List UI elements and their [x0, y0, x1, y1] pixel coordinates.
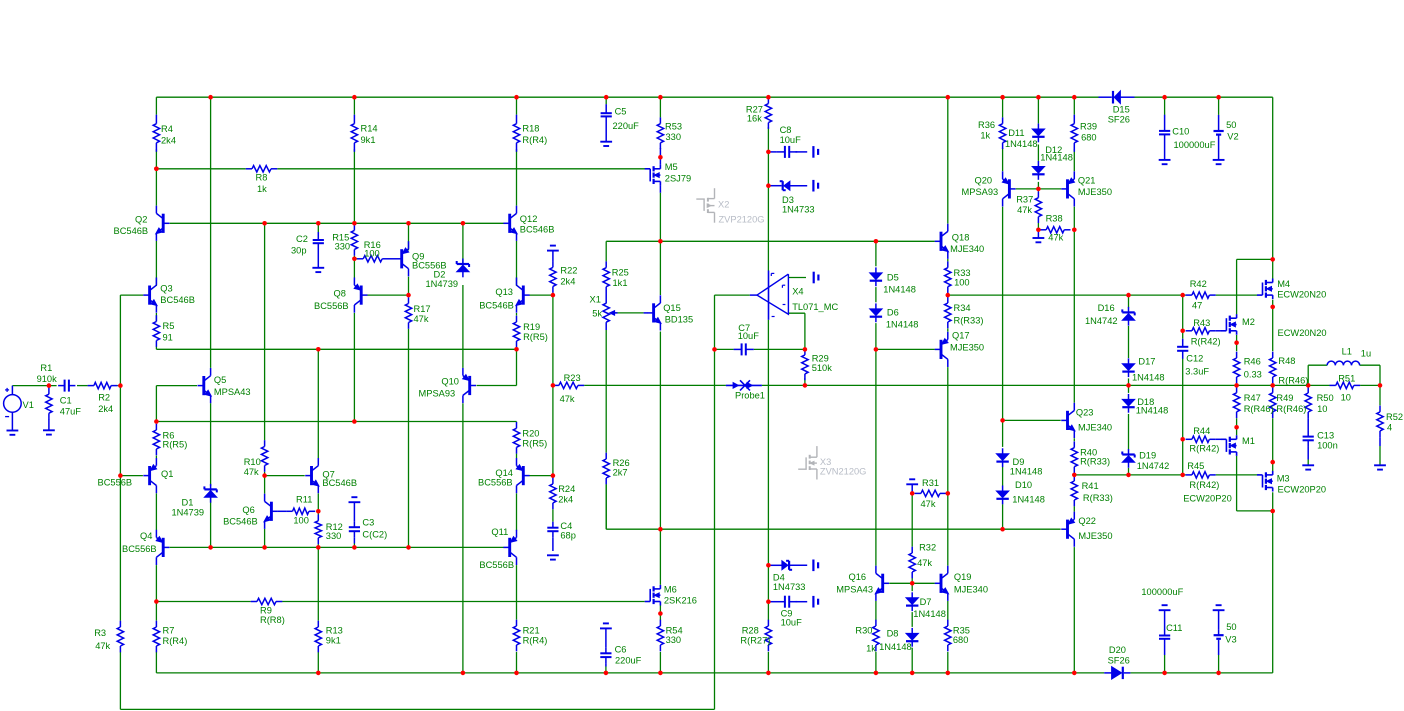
svg-text:R53: R53: [665, 122, 682, 132]
svg-text:1N4148: 1N4148: [913, 609, 946, 619]
junction R45-left: [1180, 473, 1185, 478]
diode D15 SF26: [1113, 91, 1120, 104]
transistor Q19 MJE340: [935, 566, 949, 601]
label R4: [161, 124, 176, 146]
svg-text:100n: 100n: [1317, 441, 1338, 451]
label D20: [1108, 645, 1130, 666]
label C5: [613, 107, 640, 132]
junction Q2base-I: [406, 221, 411, 226]
svg-text:Q3: Q3: [160, 284, 172, 294]
ground for V2: [1213, 160, 1225, 164]
label R33: [954, 268, 971, 287]
junction rail547-F: [262, 545, 267, 550]
label C10: [1172, 126, 1215, 150]
svg-text:47k: 47k: [1017, 205, 1032, 215]
junction R43-left: [1180, 329, 1185, 334]
diode D9 1N4148: [996, 448, 1008, 467]
ground for R38: [1033, 238, 1045, 242]
junction top-H: [352, 95, 357, 100]
capacitor C13 100n: [1303, 431, 1314, 447]
resistor R35 680: [945, 620, 951, 652]
label R3: [94, 628, 110, 651]
junction D16-top: [1126, 293, 1131, 298]
svg-text:MJE340: MJE340: [954, 585, 988, 595]
label Q19: [954, 572, 988, 595]
svg-text:330: 330: [666, 132, 682, 142]
wire D15 leads: [1099, 96, 1112, 98]
svg-text:Q10: Q10: [441, 377, 459, 387]
label R16: [364, 240, 381, 259]
label Q8: [314, 289, 349, 312]
resistor R13 9k1: [315, 621, 321, 653]
wire col Q9-R17: [408, 223, 410, 250]
junction R47-M1: [1234, 425, 1239, 430]
junction C7-left: [712, 347, 717, 352]
svg-text:R(R4): R(R4): [523, 636, 548, 646]
svg-text:R(R4): R(R4): [163, 636, 188, 646]
svg-text:D19: D19: [1139, 451, 1156, 461]
svg-text:R44: R44: [1193, 426, 1210, 436]
junction rail421-H: [352, 419, 357, 424]
junction R32-D7: [910, 581, 915, 586]
svg-text:1N4148: 1N4148: [879, 642, 912, 652]
svg-text:1N4733: 1N4733: [773, 582, 806, 592]
svg-text:R25: R25: [612, 267, 629, 277]
transistor Q7 BC546B: [305, 458, 319, 493]
ground for C5: [600, 142, 612, 146]
svg-text:100: 100: [954, 277, 970, 287]
svg-text:X1: X1: [590, 295, 601, 305]
svg-text:MJE340: MJE340: [950, 244, 984, 254]
resistor R21 R(R4): [513, 620, 519, 652]
label R27: [746, 104, 763, 123]
mosfet M3 ECW20P20: [1257, 471, 1273, 492]
ground (flipped) C11 top tie: [1159, 605, 1171, 610]
svg-text:47uF: 47uF: [60, 407, 82, 417]
diode D4 1N4733 (zener): [782, 561, 792, 570]
svg-text:R32: R32: [919, 543, 936, 553]
junction rail349-G: [316, 347, 321, 352]
svg-text:47: 47: [1192, 301, 1202, 311]
svg-text:C5: C5: [615, 107, 627, 117]
wire col R39-Q21-Q23-R40-R41-Q22: [1073, 97, 1075, 115]
label D10: [1012, 480, 1045, 504]
label D11: [1005, 128, 1038, 149]
label C4: [560, 521, 576, 541]
svg-text:R42: R42: [1190, 279, 1207, 289]
label M2: [1242, 317, 1255, 327]
junction R44-left: [1180, 437, 1185, 442]
junction rail241-R: [874, 239, 879, 244]
potentiometer X1 5k: [603, 303, 618, 322]
svg-text:SF26: SF26: [1108, 115, 1130, 125]
junction bot-C6: [604, 671, 609, 676]
svg-text:1u: 1u: [1361, 349, 1371, 359]
transistor Q12 BC546B: [503, 206, 517, 241]
svg-text:2k4: 2k4: [161, 136, 176, 146]
resistor R45 R(R42): [1186, 472, 1216, 478]
svg-text:ECW20N20: ECW20N20: [1277, 289, 1326, 299]
junction R11-R12: [316, 509, 321, 514]
junction bot-C11: [1162, 671, 1167, 676]
svg-text:R5: R5: [163, 321, 175, 331]
label R8: [256, 173, 268, 195]
junction R46-R47: [1234, 383, 1239, 388]
junction R22-Q13: [551, 293, 556, 298]
junction Q2base-J: [461, 221, 466, 226]
svg-text:Q14: Q14: [495, 468, 513, 478]
junction top-K: [514, 95, 519, 100]
label R15: [332, 232, 350, 251]
svg-text:ZVN2120G: ZVN2120G: [820, 467, 867, 477]
junction out-R52: [1378, 383, 1383, 388]
svg-text:Q4: Q4: [140, 531, 152, 541]
svg-text:R(R5): R(R5): [523, 332, 548, 342]
label R6: [163, 431, 188, 450]
svg-text:100: 100: [364, 249, 380, 259]
svg-text:BC546B: BC546B: [322, 478, 357, 488]
svg-text:SF26: SF26: [1108, 656, 1130, 666]
label R35: [953, 625, 970, 645]
svg-text:BC556B: BC556B: [479, 560, 514, 570]
wire col M4-R48-R49-M3: [1272, 259, 1274, 278]
svg-text:1k: 1k: [980, 130, 990, 140]
svg-text:30p: 30p: [291, 246, 307, 256]
transistor Q17 MJE350: [935, 332, 948, 367]
junction bot-W: [1072, 671, 1077, 676]
wire rail Q2-Q12 base: [170, 222, 504, 224]
junction D9-top: [1000, 418, 1005, 423]
svg-text:R43: R43: [1193, 318, 1210, 328]
label R18: [522, 124, 547, 146]
wire right bus bottom: [1272, 511, 1274, 673]
svg-text:47k: 47k: [95, 641, 110, 651]
svg-text:68p: 68p: [560, 531, 576, 541]
mosfet M4 ECW20N20: [1257, 279, 1273, 300]
svg-text:1N4148: 1N4148: [1132, 373, 1165, 383]
junction R40-R41: [1072, 473, 1077, 478]
label Q21: [1078, 175, 1112, 197]
svg-text:510k: 510k: [812, 363, 833, 373]
svg-text:R(R5): R(R5): [522, 439, 547, 449]
wire C8-batt: [796, 151, 808, 153]
svg-text:R2: R2: [98, 393, 110, 403]
label R53: [665, 122, 682, 143]
label R12: [326, 522, 343, 541]
svg-text:MPSA93: MPSA93: [962, 187, 999, 197]
wire col R52: [1379, 385, 1381, 405]
transistor Q20 MPSA93: [1002, 171, 1015, 206]
label Q14: [478, 468, 513, 488]
svg-text:1N4148: 1N4148: [886, 319, 919, 329]
transistor Q5 MPSA43: [198, 368, 212, 403]
source V1: [4, 388, 22, 417]
svg-text:2k4: 2k4: [98, 404, 113, 414]
label D19: [1137, 451, 1170, 471]
svg-text:2k4: 2k4: [560, 276, 575, 286]
svg-text:R41: R41: [1082, 481, 1099, 491]
svg-text:M5: M5: [665, 162, 678, 172]
resistor R48 R(R46): [1270, 352, 1276, 384]
label X1: [590, 295, 603, 319]
wire col R18-Q12-Q13: [516, 97, 518, 115]
label Q3: [160, 284, 195, 306]
resistor R32 47k: [909, 547, 915, 579]
junction top-N: [658, 95, 663, 100]
wire L1 loop: [1308, 364, 1327, 366]
ground for C10: [1159, 160, 1171, 164]
label V3: [1225, 622, 1236, 644]
svg-text:D8: D8: [887, 629, 899, 639]
transistor Q15 BD135: [647, 295, 661, 330]
resistor R53 330: [657, 117, 663, 149]
label R50: [1317, 393, 1334, 414]
wire rail R9-M6 gate: [156, 601, 250, 603]
svg-text:100000uF: 100000uF: [1141, 587, 1183, 597]
label M5: [665, 162, 691, 184]
junction rail-R8: [154, 167, 159, 172]
label D18: [1136, 397, 1169, 415]
svg-text:47k: 47k: [921, 499, 936, 509]
ground (flipped) V3 top tie: [1213, 605, 1225, 610]
junction top-V: [1036, 95, 1041, 100]
wire V1-R1: [12, 385, 56, 387]
svg-text:2SK216: 2SK216: [664, 596, 697, 606]
transistor Q4 BC556B: [156, 530, 169, 565]
label C1: [60, 396, 82, 417]
label D16: [1085, 303, 1118, 326]
label D4: [773, 573, 806, 592]
junction bot-N: [658, 671, 663, 676]
svg-text:MJE350: MJE350: [1078, 531, 1112, 541]
capacitor C10 100000uF: [1159, 115, 1170, 160]
svg-text:R(R46): R(R46): [1278, 375, 1308, 385]
label R45: [1187, 461, 1219, 490]
svg-text:BC546B: BC546B: [223, 516, 258, 526]
wire col D11-D12-R37: [1037, 97, 1039, 123]
svg-text:R(R33): R(R33): [1083, 493, 1113, 503]
resistor R17 47k: [405, 297, 411, 329]
svg-text:Probe1: Probe1: [735, 390, 765, 400]
label R54: [666, 626, 683, 646]
resistor R39 680: [1071, 115, 1077, 152]
resistor R54 330: [657, 620, 663, 652]
wire col R50-C13: [1307, 385, 1309, 386]
junction R15-R16: [352, 257, 357, 262]
junction Q1base: [118, 473, 123, 478]
svg-text:9k1: 9k1: [326, 635, 341, 645]
ground for C13: [1302, 465, 1314, 469]
junction bot-R: [874, 671, 879, 676]
svg-text:Q13: Q13: [495, 287, 513, 297]
wire R16 row: [354, 258, 357, 260]
junction D10-bot: [1000, 527, 1005, 532]
junction M3-source: [1270, 509, 1275, 514]
svg-text:C13: C13: [1317, 431, 1334, 441]
resistor R49 R(R46): [1270, 387, 1276, 419]
label Q22: [1078, 516, 1112, 541]
resistor R26 2k7: [603, 453, 609, 485]
svg-text:R(R42): R(R42): [1189, 444, 1219, 454]
wire col R36-Q20-D9-D10: [1002, 97, 1004, 117]
svg-text:R46: R46: [1244, 357, 1261, 367]
wire Q6-R11: [278, 510, 287, 512]
wire col V2: [1218, 97, 1220, 115]
ground for C2: [312, 268, 324, 272]
svg-text:R18: R18: [522, 124, 539, 134]
svg-text:MPSA43: MPSA43: [214, 387, 251, 397]
resistor R25 1k1: [603, 261, 609, 293]
junction R9-left: [154, 599, 159, 604]
svg-text:ECW20P20: ECW20P20: [1183, 494, 1232, 504]
label Q4: [122, 531, 157, 554]
diode D5 1N4148: [870, 267, 882, 286]
svg-text:R37: R37: [1016, 195, 1033, 205]
label R11: [293, 494, 312, 525]
battery D3 bias tie: [813, 180, 818, 192]
junction out-R50: [1306, 383, 1311, 388]
resistor R38 47k: [1040, 227, 1071, 233]
svg-text:R22: R22: [560, 265, 577, 275]
diode D2 1N4739 (zener): [457, 259, 469, 278]
capacitor C9 10uF: [777, 596, 797, 608]
wire rail Q4-Q11 base: [170, 546, 504, 548]
label D2: [426, 270, 459, 290]
label R51: [1338, 374, 1355, 403]
svg-text:Q21: Q21: [1078, 175, 1096, 185]
junction top-T: [946, 95, 951, 100]
resistor R30 1k: [873, 620, 879, 652]
label R28: [740, 626, 770, 646]
svg-text:2k4: 2k4: [558, 495, 573, 505]
resistor R27 16k: [765, 97, 771, 129]
wire D4 leads: [768, 564, 782, 566]
capacitor C12 3.3uF: [1177, 339, 1188, 359]
transistor Q18 MJE340: [935, 224, 949, 259]
junction M4-R48: [1270, 305, 1275, 310]
resistor R19 R(R5): [513, 316, 519, 348]
wire Q20-Q21 base link: [1016, 188, 1061, 190]
transistor Q14 BC556B: [516, 458, 529, 493]
svg-text:10: 10: [1317, 404, 1327, 414]
label R31: [921, 478, 940, 509]
label R13: [326, 626, 343, 646]
label M1 value: [1183, 494, 1232, 504]
label R46: [1244, 357, 1262, 380]
wire col C2: [317, 223, 319, 232]
wire col R22-R24-C4: [552, 251, 554, 262]
junction R37-R38: [1036, 228, 1041, 233]
label Q6: [223, 505, 258, 526]
wire col R27-C8-D3-opamp-D4-C9-R28: [767, 96, 769, 98]
label R2: [98, 393, 113, 414]
svg-text:R(R46): R(R46): [1244, 404, 1274, 414]
svg-text:BC546B: BC546B: [114, 226, 149, 236]
wire Q13 base: [530, 294, 553, 296]
junction Q20-Q21: [1036, 187, 1041, 192]
svg-text:Q23: Q23: [1076, 408, 1094, 418]
svg-text:R24: R24: [558, 484, 575, 494]
svg-text:C10: C10: [1172, 126, 1189, 136]
svg-text:50: 50: [1226, 622, 1236, 632]
capacitor C2 30p: [313, 232, 324, 268]
wire M1-M3 source link: [1237, 510, 1273, 512]
wire col D segs: [155, 97, 157, 115]
label M6: [664, 585, 697, 606]
junction D4-left: [766, 563, 771, 568]
junction rail547-G: [316, 545, 321, 550]
label X4: [792, 287, 838, 312]
diode D20 SF26: [1104, 667, 1130, 679]
junction M6-drain: [658, 527, 663, 532]
label D17: [1132, 356, 1165, 382]
svg-text:D15: D15: [1113, 104, 1130, 114]
svg-text:47k: 47k: [414, 314, 429, 324]
wire C7 row left: [715, 348, 734, 350]
junction top-P: [766, 95, 771, 100]
diode D8 1N4148: [906, 628, 918, 647]
junction R29-bot: [803, 383, 808, 388]
svg-text:R48: R48: [1278, 356, 1295, 366]
junction bot-K: [514, 671, 519, 676]
wire col V3: [1218, 610, 1220, 629]
wire col R10-Q6: [264, 223, 266, 440]
svg-text:Q12: Q12: [520, 214, 538, 224]
junction R31-left: [910, 491, 915, 496]
junction M4-M2: [1270, 257, 1275, 262]
svg-text:R(R46): R(R46): [1276, 404, 1306, 414]
svg-text:0.33: 0.33: [1244, 370, 1262, 380]
resistor R5 91: [153, 315, 159, 347]
svg-text:Q6: Q6: [242, 505, 254, 515]
wire V1 return rail: [120, 708, 714, 710]
svg-text:C4: C4: [560, 521, 572, 531]
junction top-E: [208, 95, 213, 100]
junction rail241-N: [658, 239, 663, 244]
svg-text:ECW20P20: ECW20P20: [1278, 485, 1327, 495]
diode D1 1N4739 (zener): [204, 484, 216, 503]
svg-text:680: 680: [953, 635, 969, 645]
svg-text:Q19: Q19: [954, 572, 972, 582]
label C11: [1141, 587, 1183, 633]
wire col D16-D17-D18-D19: [1128, 295, 1130, 307]
battery C9 bias tie: [813, 596, 818, 608]
label R25: [612, 267, 629, 288]
svg-text:R3: R3: [94, 628, 106, 638]
svg-text:R(R42): R(R42): [1189, 480, 1219, 490]
junction Q14base-R24: [551, 473, 556, 478]
net bottom supply rail -: [156, 672, 1104, 674]
diode D18 1N4148: [1122, 394, 1134, 413]
svg-text:BC546B: BC546B: [160, 295, 195, 305]
wire rail R26-Q22 base: [606, 528, 1060, 530]
wire col Q5-D1: [210, 97, 212, 368]
capacitor C5 220uF: [601, 104, 612, 141]
label R17: [414, 304, 431, 324]
label R5: [163, 321, 175, 343]
svg-text:X3: X3: [820, 457, 831, 467]
transistor Q8 BC556B: [354, 278, 367, 313]
wire opamp out left: [715, 294, 750, 296]
label R10: [244, 457, 261, 477]
junction C9-left: [766, 599, 771, 604]
wire R2-junction: [117, 385, 120, 387]
transistor Q23 MJE340: [1061, 403, 1075, 438]
junction top-C5: [604, 95, 609, 100]
svg-text:R38: R38: [1046, 214, 1063, 224]
label D3: [782, 195, 815, 214]
svg-text:R28: R28: [742, 626, 759, 636]
